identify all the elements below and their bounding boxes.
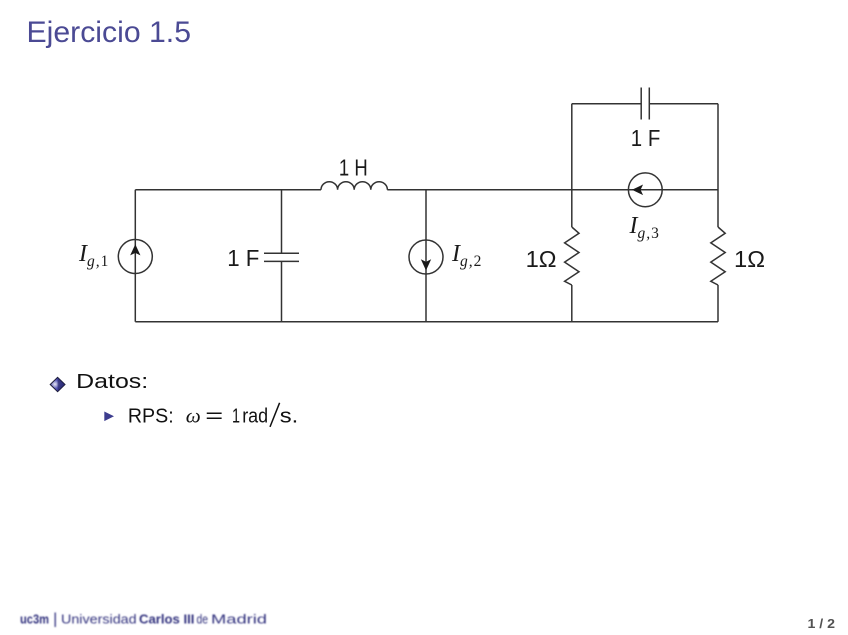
svg-text:Universidad: Universidad [61, 612, 137, 627]
svg-text:1 F: 1 F [631, 125, 661, 151]
svg-text:ω: ω [186, 405, 201, 427]
svg-text:Ig,3: Ig,3 [629, 213, 660, 242]
svg-text:Madrid: Madrid [211, 612, 267, 627]
svg-text:s.: s. [280, 405, 299, 427]
svg-text:rad: rad [242, 405, 268, 427]
svg-text:RPS:: RPS: [128, 405, 174, 427]
svg-text:1 F: 1 F [227, 245, 259, 271]
svg-text:1: 1 [232, 405, 240, 427]
svg-text:Datos:: Datos: [76, 371, 148, 393]
svg-text:1Ω: 1Ω [734, 246, 765, 272]
svg-text:Ig,2: Ig,2 [451, 241, 481, 270]
svg-text:uc3m: uc3m [20, 612, 49, 627]
svg-text:de: de [197, 612, 209, 627]
svg-text:Ig,1: Ig,1 [78, 241, 108, 270]
svg-text:=: = [205, 405, 223, 427]
svg-text:1 / 2: 1 / 2 [808, 616, 836, 631]
svg-text:1 H: 1 H [339, 155, 368, 181]
svg-text:Ejercicio 1.5: Ejercicio 1.5 [27, 16, 192, 49]
svg-text:1Ω: 1Ω [526, 246, 557, 272]
svg-text:Carlos III: Carlos III [139, 612, 194, 627]
